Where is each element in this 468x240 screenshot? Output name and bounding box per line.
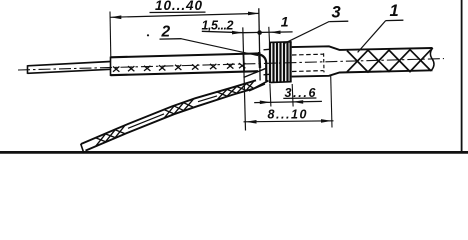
- svg-text:1,5...2: 1,5...2: [202, 19, 234, 33]
- svg-text:2: 2: [161, 23, 171, 40]
- svg-text:1: 1: [390, 2, 399, 20]
- svg-text:1: 1: [281, 14, 289, 30]
- svg-text:3...6: 3...6: [285, 86, 317, 100]
- svg-text:10...40: 10...40: [155, 0, 202, 13]
- svg-text:8...10: 8...10: [268, 108, 307, 122]
- svg-text:3: 3: [332, 4, 341, 22]
